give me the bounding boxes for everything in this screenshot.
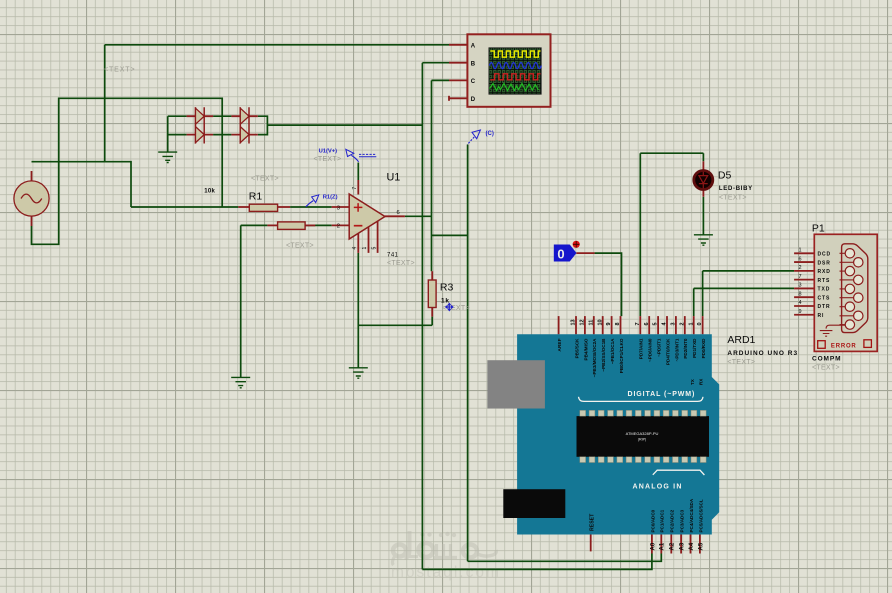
svg-text:C: C xyxy=(471,79,476,85)
svg-text:PB0/ICP1/CLKO: PB0/ICP1/CLKO xyxy=(619,338,624,373)
svg-text:DSR: DSR xyxy=(818,260,831,266)
svg-text:TXD: TXD xyxy=(818,287,831,293)
svg-text:DTR: DTR xyxy=(818,304,831,310)
svg-text:3: 3 xyxy=(671,322,677,325)
svg-text:9: 9 xyxy=(606,322,612,325)
svg-text:P1: P1 xyxy=(812,223,825,235)
svg-text:7: 7 xyxy=(352,187,358,190)
svg-text:ARDUINO UNO R3: ARDUINO UNO R3 xyxy=(727,350,798,357)
svg-text:U1(V+): U1(V+) xyxy=(319,148,338,154)
svg-text:B: B xyxy=(471,61,476,67)
svg-text:RXD: RXD xyxy=(818,269,831,275)
svg-text:<TEXT>: <TEXT> xyxy=(387,260,415,267)
svg-text:PD4/T0/XCK: PD4/T0/XCK xyxy=(665,338,670,365)
svg-text:PC5/ADC5/SCL: PC5/ADC5/SCL xyxy=(698,499,703,532)
svg-text:A4: A4 xyxy=(689,542,695,550)
svg-text:<TEXT>: <TEXT> xyxy=(719,194,747,201)
svg-text:6: 6 xyxy=(397,210,400,216)
svg-text:R1(Z): R1(Z) xyxy=(323,194,338,200)
svg-text:D5: D5 xyxy=(718,170,732,182)
svg-text:COMPM: COMPM xyxy=(812,356,841,363)
svg-text:U1: U1 xyxy=(387,171,401,183)
svg-text:<TEXT>: <TEXT> xyxy=(286,243,314,250)
svg-text:TX: TX xyxy=(690,378,695,385)
svg-text:7: 7 xyxy=(798,274,801,280)
svg-text:A5: A5 xyxy=(698,542,704,550)
svg-text:A3: A3 xyxy=(680,542,686,550)
svg-text:11: 11 xyxy=(588,320,594,326)
svg-text:RTS: RTS xyxy=(818,278,831,284)
svg-text:ERROR: ERROR xyxy=(831,343,857,349)
svg-text:CTS: CTS xyxy=(818,295,831,301)
svg-text:4: 4 xyxy=(352,247,358,250)
svg-text:A1: A1 xyxy=(660,542,666,550)
svg-text:~PD5/T1: ~PD5/T1 xyxy=(657,338,662,357)
svg-text:6: 6 xyxy=(644,322,650,325)
svg-text:R1: R1 xyxy=(249,190,263,202)
svg-text:(RIP): (RIP) xyxy=(638,438,646,442)
svg-text:ATMEGA328P-PU: ATMEGA328P-PU xyxy=(626,431,659,436)
svg-text:ARD1: ARD1 xyxy=(727,334,755,346)
svg-text:<TEXT>: <TEXT> xyxy=(727,359,755,366)
svg-text:PC3/ADC3: PC3/ADC3 xyxy=(680,509,685,532)
svg-text:10k: 10k xyxy=(204,188,215,194)
svg-text:A2: A2 xyxy=(670,542,676,550)
svg-text:0: 0 xyxy=(697,322,703,325)
svg-text:7: 7 xyxy=(635,322,641,325)
svg-text:RX: RX xyxy=(699,378,704,385)
svg-text:1: 1 xyxy=(688,322,694,325)
svg-text:8: 8 xyxy=(615,322,621,325)
svg-text:5: 5 xyxy=(653,322,659,325)
svg-text:PD2/INT0: PD2/INT0 xyxy=(683,338,688,359)
svg-text:2: 2 xyxy=(337,224,340,230)
svg-text:3: 3 xyxy=(337,205,340,211)
svg-text:~PB3/MOSI/OC2A: ~PB3/MOSI/OC2A xyxy=(592,338,597,377)
svg-text:13: 13 xyxy=(571,319,577,325)
svg-text:LED-BIBY: LED-BIBY xyxy=(719,186,753,192)
svg-text:1: 1 xyxy=(362,247,368,250)
svg-text:<TEXT>: <TEXT> xyxy=(314,156,342,163)
svg-text:PC1/ADC1: PC1/ADC1 xyxy=(660,509,665,532)
svg-text:0: 0 xyxy=(557,246,564,261)
svg-text:PD0/RXD: PD0/RXD xyxy=(701,338,706,359)
svg-text:5: 5 xyxy=(371,247,377,250)
svg-text:1: 1 xyxy=(798,248,801,254)
svg-text:PB4/MISO: PB4/MISO xyxy=(583,338,588,360)
svg-text:DIGITAL (~PWM): DIGITAL (~PWM) xyxy=(628,391,696,398)
svg-text:12: 12 xyxy=(580,319,586,325)
svg-text:9: 9 xyxy=(798,309,801,315)
svg-text:~PD6/AIN0: ~PD6/AIN0 xyxy=(648,338,653,362)
svg-text:(C): (C) xyxy=(486,131,494,137)
svg-text:PD1/TXD: PD1/TXD xyxy=(692,338,697,358)
svg-text:~PD3/INT1: ~PD3/INT1 xyxy=(674,338,679,361)
svg-text:RESET: RESET xyxy=(589,513,595,531)
svg-text:2: 2 xyxy=(679,322,685,325)
svg-text:2: 2 xyxy=(798,265,801,271)
svg-text:mostaql.com: mostaql.com xyxy=(391,564,501,581)
svg-text:<TEXT>: <TEXT> xyxy=(812,365,840,372)
svg-text:ANALOG IN: ANALOG IN xyxy=(633,483,683,490)
svg-text:A: A xyxy=(471,43,476,49)
svg-text:8: 8 xyxy=(798,291,801,297)
svg-text:PD7/AIN1: PD7/AIN1 xyxy=(639,338,644,359)
svg-text:6: 6 xyxy=(798,256,801,262)
svg-text:AREF: AREF xyxy=(557,338,563,351)
svg-text:RI: RI xyxy=(818,313,825,319)
svg-text:A0: A0 xyxy=(650,542,656,550)
svg-text:<TEXT>: <TEXT> xyxy=(104,67,135,74)
svg-text:10: 10 xyxy=(597,319,603,325)
svg-text:PC2/ADC2: PC2/ADC2 xyxy=(670,509,675,532)
svg-text:D: D xyxy=(471,97,476,103)
svg-text:PB5/SCK: PB5/SCK xyxy=(574,338,579,359)
svg-text:~PB2/SS/OC1B: ~PB2/SS/OC1B xyxy=(601,338,606,372)
svg-text:3: 3 xyxy=(798,283,801,289)
svg-text:<TEXT>: <TEXT> xyxy=(251,176,279,183)
svg-text:~PB1/OC1A: ~PB1/OC1A xyxy=(610,338,615,364)
svg-text:741: 741 xyxy=(387,252,399,258)
svg-text:PC0/ADC0: PC0/ADC0 xyxy=(650,509,655,532)
svg-text:<TEXT>: <TEXT> xyxy=(442,305,470,312)
svg-text:DCD: DCD xyxy=(818,252,832,258)
svg-text:PC4/ADC4/SDA: PC4/ADC4/SDA xyxy=(689,498,694,532)
svg-text:4: 4 xyxy=(798,300,801,306)
svg-text:R3: R3 xyxy=(440,281,454,293)
